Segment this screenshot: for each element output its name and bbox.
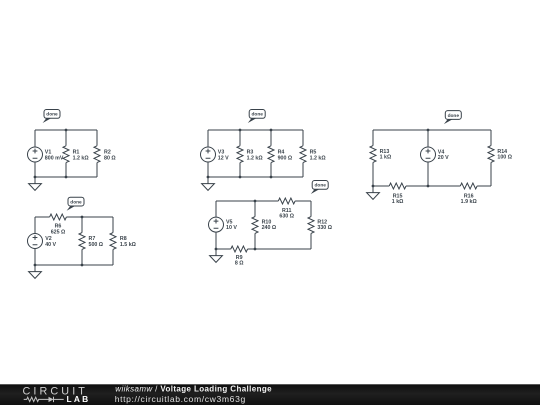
annotation done C1	[43, 110, 60, 124]
voltage source V3 12 V	[201, 130, 230, 177]
wire C2 bottom rail	[35, 264, 113, 266]
node C4 top junction	[254, 200, 257, 203]
wire C4 top rail right	[295, 200, 311, 202]
svg-text:1.2 kΩ: 1.2 kΩ	[73, 156, 90, 162]
node C4 bottom left junction	[215, 248, 218, 251]
svg-text:done: done	[46, 112, 58, 118]
resistor R9 8 Ω	[231, 246, 248, 267]
resistor R5 1.2 kΩ	[300, 130, 326, 177]
svg-text:http://circuitlab.com/cw3m63g: http://circuitlab.com/cw3m63g	[115, 394, 246, 404]
resistor R15 1 kΩ	[389, 183, 406, 205]
node C5 bottom junction V4	[427, 185, 430, 188]
svg-text:1.5 kΩ: 1.5 kΩ	[120, 242, 137, 248]
wire C4 top rail left	[216, 200, 278, 202]
svg-text:LAB: LAB	[67, 394, 91, 404]
resistor R2 80 Ω	[94, 130, 116, 177]
resistor R3 1.2 kΩ	[237, 130, 263, 177]
node C3 top junction R3	[239, 129, 242, 132]
svg-text:1.9 kΩ: 1.9 kΩ	[461, 199, 478, 205]
annotation done C4	[311, 181, 328, 195]
node C2 top junction	[81, 216, 84, 219]
ground C5	[367, 186, 380, 199]
wire C2 top rail right	[66, 216, 113, 218]
svg-text:8 Ω: 8 Ω	[235, 261, 244, 267]
svg-text:done: done	[251, 112, 263, 118]
voltage source V1 800 mV	[28, 130, 64, 177]
voltage source V2 40 V	[28, 217, 57, 265]
resistor R1 1.2 kΩ	[63, 130, 89, 177]
wire C4 bottom rail left	[216, 248, 231, 250]
wire C2 top rail left	[35, 216, 50, 218]
ground C2	[29, 265, 42, 278]
node C3 bottom junction R4	[270, 176, 273, 179]
node C1 top junction	[65, 129, 68, 132]
wire C5 bottom rail left	[373, 185, 389, 187]
node C2 bottom left junction	[34, 264, 37, 267]
svg-text:done: done	[448, 113, 460, 119]
resistor R11 630 Ω	[278, 198, 295, 220]
svg-text:1 kΩ: 1 kΩ	[380, 155, 392, 161]
resistor R7 500 Ω	[79, 217, 104, 265]
svg-text:80 Ω: 80 Ω	[104, 156, 116, 162]
resistor R6 625 Ω	[50, 214, 67, 235]
logo schematic line resistor and diode	[24, 397, 64, 402]
svg-text:900 Ω: 900 Ω	[278, 156, 293, 162]
ground C4	[210, 249, 223, 262]
svg-text:240 Ω: 240 Ω	[262, 225, 277, 231]
svg-text:330 Ω: 330 Ω	[317, 225, 332, 231]
wire C3 top rail	[208, 129, 303, 131]
svg-text:20 V: 20 V	[438, 155, 449, 161]
wire C3 bottom rail	[208, 176, 303, 178]
ground C1	[29, 177, 42, 190]
svg-text:wiiksamw / Voltage Loading Cha: wiiksamw / Voltage Loading Challenge	[115, 385, 272, 394]
node C2 bottom mid junction	[81, 264, 84, 267]
annotation done C3	[248, 110, 265, 124]
resistor R13 1 kΩ	[370, 130, 392, 186]
annotation done C2	[67, 197, 84, 211]
svg-text:800 mV: 800 mV	[45, 156, 64, 162]
svg-text:500 Ω: 500 Ω	[89, 242, 104, 248]
wire C1 top rail	[35, 129, 97, 131]
svg-text:done: done	[314, 183, 326, 189]
voltage source V4 20 V	[421, 130, 450, 186]
resistor R8 1.5 kΩ	[110, 217, 137, 265]
node C5 bottom left junction	[372, 185, 375, 188]
voltage source V5 10 V	[209, 201, 238, 249]
node C3 top junction R4	[270, 129, 273, 132]
svg-text:1 kΩ: 1 kΩ	[392, 199, 404, 205]
wire C5 top rail	[373, 129, 491, 131]
node C4 bottom mid junction	[254, 248, 257, 251]
svg-text:1.2 kΩ: 1.2 kΩ	[247, 156, 264, 162]
resistor R10 240 Ω	[252, 201, 277, 249]
svg-text:630 Ω: 630 Ω	[279, 214, 294, 220]
node C3 bottom junction R3	[239, 176, 242, 179]
node C3 bottom junction V3	[207, 176, 210, 179]
resistor R14 100 Ω	[488, 130, 513, 186]
node C1 bottom mid junction	[65, 176, 68, 179]
footer bar	[0, 384, 540, 405]
resistor R4 900 Ω	[268, 130, 293, 177]
resistor R12 330 Ω	[308, 201, 333, 249]
svg-text:done: done	[70, 199, 82, 205]
svg-text:12 V: 12 V	[218, 156, 229, 162]
ground C3	[202, 177, 215, 190]
node C5 top junction	[427, 129, 430, 132]
wire C5 bottom rail right	[477, 185, 491, 187]
wire C5 bottom rail mid	[406, 185, 460, 187]
svg-text:1.2 kΩ: 1.2 kΩ	[310, 156, 327, 162]
resistor R16 1.9 kΩ	[460, 183, 477, 205]
svg-text:625 Ω: 625 Ω	[51, 229, 66, 235]
wire C1 bottom rail	[35, 176, 97, 178]
svg-text:10 V: 10 V	[226, 225, 237, 231]
svg-text:100 Ω: 100 Ω	[497, 155, 512, 161]
wire C4 bottom rail right	[248, 248, 311, 250]
annotation done C5	[444, 111, 461, 125]
node C1 bottom left junction	[34, 176, 37, 179]
svg-text:40 V: 40 V	[45, 242, 56, 248]
